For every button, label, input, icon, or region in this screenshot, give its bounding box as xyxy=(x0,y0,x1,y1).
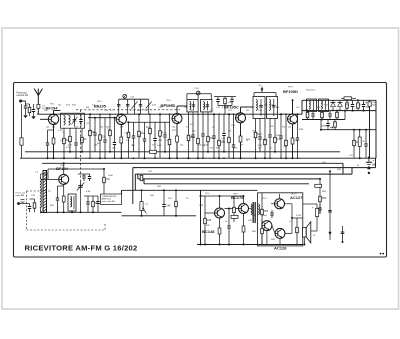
svg-text:AC127: AC127 xyxy=(290,195,303,200)
svg-text:1k: 1k xyxy=(84,139,87,141)
resistor R2 lower left xyxy=(20,138,23,145)
capacitor C25 xyxy=(233,114,235,145)
wire: stair vertical 4 xyxy=(134,174,136,190)
switch legend box COMMUTATORE xyxy=(101,194,122,205)
svg-text:447: 447 xyxy=(240,145,244,147)
transistor TR10 driver xyxy=(262,221,272,231)
cap plates 4 xyxy=(139,104,142,106)
svg-text:R45: R45 xyxy=(206,225,211,227)
wire: ground bus upper section xyxy=(20,157,376,159)
svg-text:R50: R50 xyxy=(252,231,257,233)
wire: TR7 collector xyxy=(219,196,221,208)
svg-text:455: 455 xyxy=(192,131,196,133)
svg-text:R19: R19 xyxy=(221,142,226,144)
wire: interconnect D xyxy=(138,178,320,180)
wire: lower mid rail xyxy=(122,215,197,217)
svg-text:C31: C31 xyxy=(231,125,236,127)
svg-text:+: + xyxy=(365,101,367,105)
capacitor C27 xyxy=(269,119,271,136)
wire: left drop to ground bus xyxy=(21,104,23,158)
wire: TR8 collector xyxy=(243,196,245,204)
AM antenna wave symbol xyxy=(21,198,25,201)
tuning gang top bracket xyxy=(119,98,149,100)
resistor R10 TR2 emitter xyxy=(120,137,123,143)
wire: vertical joining buses xyxy=(301,100,303,114)
svg-text:C40: C40 xyxy=(31,195,36,197)
variable cap arrow 2 xyxy=(146,102,152,109)
wire: coil bottom to bus xyxy=(40,208,42,213)
svg-text:C49: C49 xyxy=(199,205,204,207)
svg-text:1n: 1n xyxy=(270,148,273,150)
coil L2 xyxy=(69,116,71,126)
svg-text:+: + xyxy=(372,159,374,163)
svg-text:BC178: BC178 xyxy=(231,195,244,200)
resistor R33 xyxy=(307,111,309,120)
resistor R56 xyxy=(224,97,226,106)
svg-text:S2: S2 xyxy=(259,85,262,87)
diode D2 xyxy=(338,103,343,107)
capacitor C18 xyxy=(164,122,166,135)
resistor R15 xyxy=(169,114,171,158)
wire: detector second rail xyxy=(302,110,376,112)
svg-text:10k: 10k xyxy=(106,179,111,181)
resistor R46 xyxy=(233,196,235,222)
svg-text:A/FM nella: A/FM nella xyxy=(102,197,112,200)
capacitor C34 xyxy=(327,120,329,124)
ground xyxy=(32,117,35,119)
svg-text:C37: C37 xyxy=(349,155,354,157)
volume potentiometer P1 xyxy=(141,190,143,216)
wire: stair vertical right 3 xyxy=(375,158,377,167)
wire: preamp rail xyxy=(201,195,244,197)
FM antenna symbol xyxy=(34,89,42,96)
svg-text:C44: C44 xyxy=(148,171,153,173)
svg-text:344: 344 xyxy=(264,104,268,106)
resistor R16 xyxy=(188,112,190,158)
resistor R51 xyxy=(261,220,263,245)
capacitor C2 xyxy=(33,104,35,110)
svg-text:BC148: BC148 xyxy=(202,229,215,234)
corner mark xyxy=(380,253,382,255)
svg-text:4,7: 4,7 xyxy=(252,107,256,109)
resistor TR4 emitter xyxy=(239,136,242,142)
schematic frame xyxy=(14,83,387,258)
wire: TR2 emitter xyxy=(120,125,122,159)
capacitor C15 xyxy=(133,122,135,136)
ferrite rod antenna xyxy=(43,171,47,213)
capacitor C44 xyxy=(87,196,89,202)
capacitor C45 xyxy=(97,196,99,202)
svg-text:R12: R12 xyxy=(141,133,146,135)
svg-text:4,7: 4,7 xyxy=(130,110,134,112)
resistor R42 xyxy=(103,169,105,194)
IF transformer T1 box a xyxy=(187,99,198,112)
junction dot xyxy=(141,215,143,217)
capacitor C56 xyxy=(231,97,233,100)
capacitor C32 xyxy=(312,111,314,114)
svg-text:C20: C20 xyxy=(195,88,200,90)
resistor R3 TR1 emitter xyxy=(52,138,55,144)
svg-text:C22: C22 xyxy=(216,107,221,109)
capacitor C52 on R53 line xyxy=(319,204,321,208)
svg-text:C48: C48 xyxy=(248,220,253,222)
wire: TR6 base lead xyxy=(42,178,59,180)
svg-text:22k: 22k xyxy=(180,145,184,147)
tuning gang dashed link vertical xyxy=(80,110,82,181)
svg-text:13k: 13k xyxy=(100,127,104,129)
wire: mixer output rail xyxy=(127,121,170,123)
wire: C51 bottom to speaker xyxy=(316,222,318,231)
svg-text:posiz. onde AM: posiz. onde AM xyxy=(102,200,115,203)
capacitor C21 xyxy=(192,112,194,135)
capacitor C5 xyxy=(47,130,49,143)
resistor R34 xyxy=(321,111,323,120)
svg-text:0,04: 0,04 xyxy=(157,145,162,147)
capacitor C43 xyxy=(89,174,91,177)
wire: TR1 collector xyxy=(53,111,55,115)
svg-text:TR 6: TR 6 xyxy=(205,193,210,195)
IFT1 top bracket xyxy=(187,93,211,95)
svg-text:16: 16 xyxy=(313,235,316,237)
AM antenna terminal xyxy=(17,202,20,205)
electrolytic C36 xyxy=(369,100,371,107)
capacitor C28 xyxy=(280,114,282,136)
IF transformer T2 box b xyxy=(267,97,278,119)
wire: TR8 to transformer xyxy=(249,208,251,210)
electrolytic C35 tall xyxy=(359,130,361,159)
wire: TR1 base lead xyxy=(40,118,48,120)
wire: coil top lead xyxy=(40,174,42,179)
resistor R32 xyxy=(357,100,359,110)
svg-text:C9: C9 xyxy=(86,123,90,125)
wire: stair vertical 1 xyxy=(132,168,134,204)
svg-text:4,7: 4,7 xyxy=(110,110,114,112)
wire: TR1 emitter xyxy=(53,125,55,159)
resistor TR8 emitter xyxy=(242,226,245,232)
capacitor C23 xyxy=(213,114,215,136)
svg-text:44k: 44k xyxy=(276,107,280,109)
resistor R45 xyxy=(204,196,206,245)
wire: TR3 emitter xyxy=(176,124,178,159)
svg-text:R38: R38 xyxy=(158,140,163,142)
wire: interconnect B xyxy=(133,167,376,169)
FM tuner coil box L1/L2 xyxy=(61,113,85,128)
resistor R4 xyxy=(63,128,65,158)
svg-text:R17: R17 xyxy=(172,130,177,132)
trimmer cap 1 xyxy=(117,104,120,106)
resistor R5 xyxy=(69,128,71,152)
wire: TR10-TR11 link xyxy=(272,226,275,234)
svg-text:10k: 10k xyxy=(131,145,135,147)
resistor R35 xyxy=(336,111,338,120)
capacitor C55 xyxy=(217,97,219,100)
svg-text:R15: R15 xyxy=(345,104,350,106)
svg-text:416: 416 xyxy=(317,107,321,109)
svg-text:C38: C38 xyxy=(283,146,288,148)
wire: feed to volume pot xyxy=(121,190,123,194)
svg-text:al ampl.: al ampl. xyxy=(322,125,331,128)
capacitor C46 coupling xyxy=(163,190,165,204)
wire: collector rail AM xyxy=(48,168,104,170)
resistor R7 xyxy=(89,114,91,158)
svg-text:276: 276 xyxy=(210,110,214,112)
capacitor C47 xyxy=(228,209,230,227)
wire: stair vertical 2 xyxy=(137,174,139,179)
FM antenna input terminal xyxy=(19,100,22,103)
svg-text:5,6k: 5,6k xyxy=(221,138,226,140)
wire: right edge vertical xyxy=(375,100,377,158)
capacitor C29 xyxy=(297,114,299,138)
gang section drop 2 xyxy=(127,99,129,114)
svg-text:TR 9: TR 9 xyxy=(262,198,267,200)
svg-text:BF195D: BF195D xyxy=(283,89,298,94)
svg-text:0,02: 0,02 xyxy=(258,145,263,147)
svg-text:245: 245 xyxy=(112,148,116,150)
gang section drop 5 xyxy=(148,99,150,114)
wire: stub x342 xyxy=(342,226,344,242)
resistor R13 xyxy=(149,114,151,152)
ratio detector transformer box a xyxy=(307,99,317,112)
wire: TR6 collector xyxy=(63,163,65,174)
coil L1 xyxy=(64,116,66,126)
resistor R23 xyxy=(274,119,276,152)
svg-text:+: + xyxy=(312,206,314,210)
capacitor C41 xyxy=(57,186,59,198)
diode D1 xyxy=(331,103,336,107)
resistor R22 xyxy=(264,119,266,159)
svg-text:R55: R55 xyxy=(322,191,327,193)
svg-text:40k: 40k xyxy=(120,127,124,129)
svg-text:C5: C5 xyxy=(138,135,142,137)
wire: TR3 collector to IFT xyxy=(176,106,178,114)
svg-text:BF195: BF195 xyxy=(94,103,107,108)
IFT2 top bracket xyxy=(254,92,276,94)
svg-text:C14: C14 xyxy=(130,97,135,99)
svg-text:10n: 10n xyxy=(296,107,300,109)
horizontal resistor R54 xyxy=(315,184,322,187)
wire: audio ground bus xyxy=(197,244,303,246)
svg-text:P1: P1 xyxy=(146,204,149,206)
wire: TR8 emitter xyxy=(243,214,245,245)
svg-text:C23: C23 xyxy=(228,110,233,112)
ground xyxy=(24,116,27,118)
svg-text:R43: R43 xyxy=(157,186,162,188)
svg-text:R50: R50 xyxy=(264,211,269,213)
svg-text:97: 97 xyxy=(359,104,362,106)
capacitor C10 xyxy=(114,118,116,143)
wire: input terminal lead xyxy=(21,100,26,102)
capacitor C9 xyxy=(104,118,106,140)
capacitor row C42 xyxy=(83,174,85,176)
bus junction dots xyxy=(47,157,49,159)
wire: rail above bus near TR4 xyxy=(214,96,236,98)
svg-text:1k: 1k xyxy=(225,221,228,223)
svg-text:220: 220 xyxy=(270,126,274,128)
svg-text:22k: 22k xyxy=(258,148,262,150)
svg-text:esterna FM: esterna FM xyxy=(17,94,29,97)
resistor R12 xyxy=(138,114,140,158)
wire: AM rail xyxy=(84,195,98,197)
trimmer circle C13 xyxy=(123,94,127,98)
trimmer C20 circle xyxy=(196,91,200,95)
resistor R14 xyxy=(159,114,161,158)
resistor R24 xyxy=(285,114,287,158)
wire: lower-left ground bus xyxy=(41,211,122,213)
capacitor C26 xyxy=(259,119,261,138)
wire: interconnect F xyxy=(122,189,258,191)
resistor R18 xyxy=(207,112,209,152)
wire: lower rail drop xyxy=(344,111,346,120)
electrolytic C51 xyxy=(316,204,318,222)
wire: jack lead xyxy=(19,203,27,205)
interstage transformer T3 xyxy=(252,202,254,223)
svg-text:22k: 22k xyxy=(172,127,176,129)
wire: interconnect C xyxy=(135,173,352,175)
capacitor C54 xyxy=(341,231,345,233)
resistor TR3 emitter xyxy=(176,136,179,142)
svg-text:L1: L1 xyxy=(62,132,65,134)
wire: interconnect E xyxy=(144,183,309,185)
resistor R52 xyxy=(296,218,298,245)
svg-text:C39: C39 xyxy=(258,110,263,112)
svg-text:0,09: 0,09 xyxy=(66,104,71,106)
variable cap arrow 1 xyxy=(132,102,138,109)
svg-text:AC128: AC128 xyxy=(274,246,287,251)
resistor R41 xyxy=(92,196,94,212)
battery B1 9V xyxy=(368,157,370,161)
svg-text:22k: 22k xyxy=(46,127,50,129)
resistor R30 horizontal xyxy=(344,97,352,100)
capacitor C22 xyxy=(202,112,204,134)
tuning gang dashed link xyxy=(76,109,180,111)
svg-text:Rivelatore: Rivelatore xyxy=(306,89,316,92)
svg-text:1k: 1k xyxy=(357,165,360,167)
capacitor C40 xyxy=(29,204,31,207)
wire: stair vertical right 1 xyxy=(342,163,344,174)
svg-text:C27: C27 xyxy=(184,107,189,109)
loudspeaker xyxy=(303,228,307,238)
resistor R36 xyxy=(334,120,336,130)
resistor R53 xyxy=(319,179,321,214)
capacitor C3 on antenna lead xyxy=(37,104,40,108)
svg-text:R34: R34 xyxy=(72,104,77,106)
bus junction dots top xyxy=(53,113,55,115)
AGC resistor on line xyxy=(150,150,157,153)
resistor TR6 emitter xyxy=(62,196,65,202)
wire: top supply bus left section xyxy=(37,113,302,115)
svg-text:4,7k: 4,7k xyxy=(162,133,167,135)
resistor R1 xyxy=(29,104,31,116)
wire: tuning cap to bus xyxy=(80,187,82,212)
feedback resistor R47 xyxy=(231,215,238,218)
wire: right vertical to battery xyxy=(369,107,371,157)
test point arrow xyxy=(261,87,263,93)
svg-text:22k: 22k xyxy=(102,137,107,139)
wire: TR2 base rail xyxy=(88,117,116,119)
wire: TR7 emitter xyxy=(219,218,221,245)
trimmer cap 2 xyxy=(126,104,129,106)
wire: TR4 emitter xyxy=(240,123,242,158)
wire: osc box to bus xyxy=(71,211,73,212)
resistor R31 xyxy=(346,100,348,110)
wire: stair vertical right 2 xyxy=(351,168,353,175)
wire: TR5 emitter xyxy=(292,124,294,158)
svg-text:RICEVITORE AM-FM G 16/202: RICEVITORE AM-FM G 16/202 xyxy=(25,243,138,252)
svg-text:22k: 22k xyxy=(264,140,268,142)
battery terminal dot xyxy=(368,172,370,174)
ratio detector transformer box b xyxy=(319,99,329,112)
capacitor C33 xyxy=(329,111,331,114)
svg-text:R53: R53 xyxy=(322,198,327,200)
svg-text:0,5W: 0,5W xyxy=(296,215,301,217)
wire: TR9 collector xyxy=(279,194,281,199)
wire: TR11 emitter xyxy=(279,238,281,244)
wire: TR4 collector to IFT2 xyxy=(240,107,242,113)
svg-text:220: 220 xyxy=(168,198,172,200)
wire: TR5 collector xyxy=(292,100,294,114)
svg-text:9V: 9V xyxy=(372,163,375,167)
capacitor C17 xyxy=(154,122,156,138)
wire: TR8 base lead xyxy=(225,208,239,210)
gang section drop 4 xyxy=(140,99,142,114)
resistor R17 xyxy=(197,112,199,158)
svg-text:R41: R41 xyxy=(50,205,55,207)
wire: TR2 collector xyxy=(120,113,122,115)
resistor TR5 emitter xyxy=(291,138,294,144)
transistor TR7 BC148 xyxy=(215,208,225,218)
svg-text:R28: R28 xyxy=(246,139,251,141)
svg-text:243: 243 xyxy=(246,110,250,112)
capacitor C1 xyxy=(25,101,27,106)
wire: module bottom xyxy=(266,231,268,245)
gang section drop 1 xyxy=(118,99,120,114)
wire: AGC line xyxy=(25,151,340,153)
wire: interconnect A xyxy=(42,162,343,164)
switch contact xyxy=(329,232,331,235)
svg-text:10uF: 10uF xyxy=(108,175,114,177)
svg-text:R46: R46 xyxy=(150,195,155,197)
wire: antenna down lead xyxy=(37,95,39,115)
svg-text:0,06: 0,06 xyxy=(152,104,157,106)
svg-text:31k: 31k xyxy=(58,104,62,106)
wire: audio input vertical xyxy=(200,190,202,244)
svg-text:431: 431 xyxy=(86,107,90,109)
svg-text:47k: 47k xyxy=(190,124,194,126)
wire: detector mid rail xyxy=(302,119,345,121)
wire: drop to bus xyxy=(224,106,226,115)
svg-text:onde AM: onde AM xyxy=(16,194,25,197)
svg-text:Presa ant.: Presa ant. xyxy=(17,92,28,95)
capacitor C30 xyxy=(352,100,354,104)
svg-text:L5: L5 xyxy=(36,172,39,174)
svg-text:ST: ST xyxy=(363,141,366,143)
audio output module box xyxy=(258,193,303,246)
variable capacitor CV1 xyxy=(74,115,76,127)
svg-text:C46: C46 xyxy=(166,206,171,208)
resistor R8 xyxy=(99,114,101,158)
wire: speaker coupling xyxy=(292,217,303,219)
wire: detector out vertical xyxy=(320,120,322,130)
svg-text:22k: 22k xyxy=(288,127,292,129)
capacitor C6 in box xyxy=(80,115,82,120)
resistor R37 xyxy=(353,130,355,159)
resistor R40 xyxy=(34,199,36,212)
svg-text:COMMUTATORE: COMMUTATORE xyxy=(102,195,117,198)
wire: top bus right (detector) section xyxy=(302,99,376,101)
resistor R6 xyxy=(81,128,83,152)
resistor R44 xyxy=(175,190,177,216)
dashed AM coil enclosure xyxy=(26,191,28,230)
